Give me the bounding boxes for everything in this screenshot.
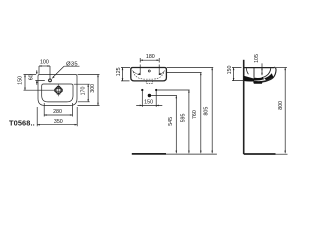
- svg-text:800: 800: [278, 101, 284, 110]
- dim 350 (bottom): [37, 107, 77, 126]
- svg-text:150: 150: [17, 76, 23, 85]
- ext from trap dot to 545: [151, 95, 177, 97]
- dim 805: [211, 68, 213, 154]
- svg-text:150: 150: [227, 66, 233, 75]
- svg-text:T0568..: T0568..: [9, 118, 35, 127]
- svg-text:60: 60: [29, 74, 35, 80]
- dim 300 (right top view): [78, 75, 100, 106]
- bowl outline (plan): [42, 84, 73, 102]
- dim 170 (right top view): [74, 84, 90, 102]
- dim 105 (side): [261, 63, 263, 75]
- basin underside (side): [254, 78, 272, 82]
- dim 60 (left): [35, 70, 45, 85]
- drain dashed rect (front): [146, 81, 152, 83]
- wall wedge (side): [244, 76, 254, 82]
- dim 150 (fixing): [136, 104, 162, 106]
- dim 100 (top): [39, 66, 50, 79]
- fixing hole left: [141, 89, 143, 91]
- wall line: [243, 60, 245, 154]
- overflow vertical line (side): [253, 68, 255, 77]
- dim 180: [140, 65, 159, 75]
- svg-text:280: 280: [53, 109, 62, 115]
- cavity left lip (side): [246, 68, 248, 74]
- trap dot: [148, 94, 151, 97]
- tap hole (front): [148, 70, 150, 72]
- ext to 805: [167, 67, 213, 69]
- dim 545: [175, 96, 177, 154]
- deck curve left: [132, 71, 140, 75]
- basin outer front face (side): [267, 67, 276, 80]
- svg-text:Ø35: Ø35: [66, 61, 78, 67]
- ext from right fixing hole to 595: [157, 89, 189, 91]
- fixing hole right: [155, 89, 157, 91]
- svg-text:595: 595: [180, 114, 186, 123]
- svg-text:105: 105: [254, 54, 260, 63]
- drain bar (side): [253, 82, 262, 84]
- bowl bottom dark (side): [254, 77, 265, 80]
- dim 125 (front left): [121, 68, 130, 81]
- svg-text:300: 300: [90, 84, 96, 93]
- svg-text:125: 125: [116, 67, 122, 76]
- dim 150 (side left): [232, 68, 245, 81]
- dim 760: [200, 73, 202, 154]
- basin inner front curve (side): [262, 68, 271, 77]
- dim 800: [284, 68, 286, 154]
- basin outer outline (plan): [38, 75, 77, 106]
- ext to 760: [167, 72, 202, 74]
- svg-text:350: 350: [54, 119, 63, 125]
- drain strainer: [55, 87, 62, 94]
- ext to 800: [276, 67, 287, 69]
- tap hole: [49, 79, 52, 82]
- dim O35 leader: [53, 66, 80, 77]
- svg-text:100: 100: [40, 59, 49, 65]
- bowl dashed curve (front): [133, 72, 164, 80]
- sail tip dark (side): [264, 73, 273, 80]
- basin outline (front): [131, 68, 167, 81]
- dim 150 (left): [24, 75, 55, 91]
- dim 280 (bottom): [44, 103, 72, 117]
- basin rim (side): [244, 67, 275, 69]
- dim 595: [188, 90, 190, 153]
- svg-text:180: 180: [146, 54, 155, 60]
- svg-text:760: 760: [192, 110, 198, 119]
- svg-text:170: 170: [81, 87, 87, 96]
- svg-text:805: 805: [204, 107, 210, 116]
- svg-text:150: 150: [144, 100, 153, 106]
- svg-text:545: 545: [168, 117, 174, 126]
- floor under side view: [244, 153, 276, 155]
- deck curve right: [159, 71, 165, 75]
- floor under front view: [132, 153, 166, 155]
